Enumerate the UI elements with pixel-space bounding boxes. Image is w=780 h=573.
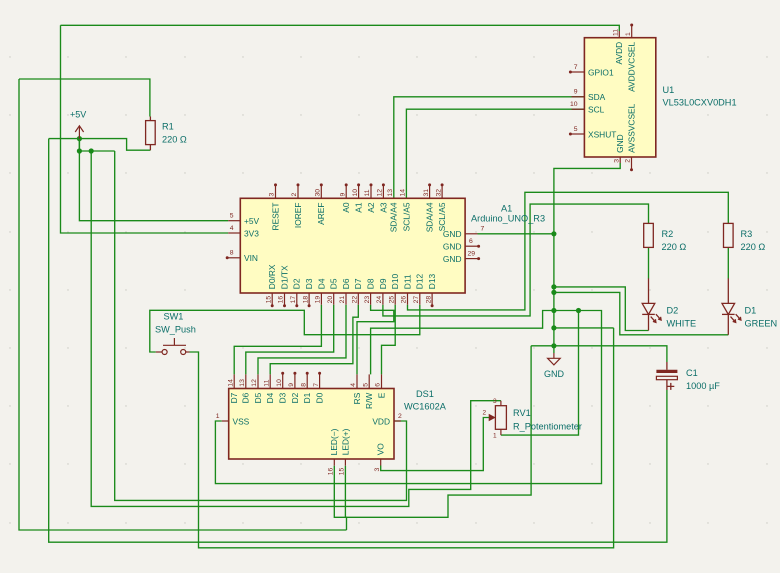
wire far-left vertical to LCD LED- rail [19,79,347,530]
capacitor C1 [656,362,677,390]
wire LCD VO to RV1 wiper [381,418,489,471]
svg-text:29: 29 [468,250,476,257]
svg-text:D9: D9 [378,278,388,289]
svg-text:D2: D2 [290,392,300,403]
svg-text:WHITE: WHITE [667,319,697,329]
svg-text:D4: D4 [265,392,275,403]
wire SCL wire [406,109,584,198]
svg-text:E: E [376,392,386,398]
svg-text:SW_Push: SW_Push [155,325,196,335]
svg-text:7: 7 [574,64,578,71]
wire +5V branch to RV1 pin3 [91,151,501,506]
power GND symbol [548,353,561,365]
DS1 left pin VSS [222,420,229,422]
svg-text:D7: D7 [229,392,239,403]
svg-text:31: 31 [423,189,430,197]
wire LCD RW to ground [371,311,554,375]
wire SW1 left to Arduino D12 [150,305,420,352]
svg-text:DS1: DS1 [416,389,434,399]
svg-text:D2: D2 [292,278,302,289]
svg-text:R1: R1 [162,122,174,132]
svg-text:R_Potentiometer: R_Potentiometer [513,422,582,432]
svg-text:R2: R2 [662,229,674,239]
wire R3 bottom to D1 anode [727,247,729,278]
wire top +5V rail to U1 AVDD [61,25,620,31]
svg-text:D6: D6 [341,278,351,289]
A1 top pins [275,186,277,198]
svg-text:RESET: RESET [270,203,280,231]
A1 bottom pins [271,293,273,305]
svg-text:D0: D0 [315,392,325,403]
wire SDA wire [394,97,585,199]
A1 right pins GND 7 6 29 [465,233,477,235]
svg-text:1: 1 [625,32,632,36]
svg-text:D1: D1 [302,392,312,403]
svg-text:GND: GND [443,241,462,251]
wire Arduino D5 to LCD D6 [246,305,334,375]
svg-text:D8: D8 [366,278,376,289]
power +5V symbol [75,126,83,139]
wire RV1 pin1 to ground row [501,311,579,436]
svg-text:R3: R3 [741,229,753,239]
A1 left pins +5V 3V3 VIN [228,220,240,222]
svg-text:GREEN: GREEN [745,319,778,329]
svg-text:AVSSVCSEL: AVSSVCSEL [627,103,637,153]
svg-text:11: 11 [613,29,620,36]
svg-text:SDA/A4: SDA/A4 [425,202,435,232]
svg-text:SCL/A5: SCL/A5 [401,202,411,231]
svg-text:VIN: VIN [244,253,258,263]
svg-text:VDD: VDD [372,416,390,426]
wire Arduino D4 to LCD D7 [234,305,321,375]
ic A1 Arduino_UNO_R3 body [240,198,465,293]
svg-text:1: 1 [493,433,497,440]
svg-text:220 Ω: 220 Ω [662,242,687,252]
svg-text:RS: RS [352,392,362,404]
svg-text:SCL: SCL [588,105,605,115]
LED D1 [722,278,741,334]
svg-text:12: 12 [251,379,258,387]
svg-text:R/W: R/W [364,393,374,409]
svg-text:U1: U1 [663,85,675,95]
LED D2 [642,278,661,330]
wire C1 top plate to ground [531,346,667,362]
switch SW1 [156,338,190,355]
svg-text:17: 17 [290,296,297,304]
wire +5V branch to LCD VDD [115,151,407,500]
U1 bottom pins GND AVSSVCSEL [619,157,621,163]
svg-text:24: 24 [376,296,383,304]
wire Arduino D7 to LCD D4 [270,305,358,375]
junction at 79,139 [77,136,82,141]
wire R2 bottom to D2 anode [648,247,650,278]
svg-text:8: 8 [230,250,234,257]
svg-text:SCL/A5: SCL/A5 [437,202,447,231]
ic U1 VL53L0CXV0DH1 body [584,38,655,157]
svg-text:16: 16 [278,296,285,304]
svg-text:VSS: VSS [233,416,250,426]
wire ground to LED D2 cathode outer [554,287,649,331]
svg-text:D5: D5 [253,392,263,403]
wire +5V vertical to C1 bottom rail [49,139,667,543]
svg-text:2: 2 [483,410,487,417]
svg-text:16: 16 [328,467,335,475]
svg-text:6: 6 [469,238,473,245]
svg-text:220 Ω: 220 Ω [741,242,766,252]
svg-text:D3: D3 [278,392,288,403]
svg-text:14: 14 [227,379,234,387]
svg-text:3: 3 [613,159,620,163]
svg-text:5: 5 [230,213,234,220]
svg-text:A3: A3 [378,202,388,213]
junction at 554,287 [551,284,556,289]
resistor R3 [724,223,734,247]
svg-text:220 Ω: 220 Ω [162,135,187,145]
svg-text:18: 18 [302,296,309,304]
wire LCD LED- drop with jog [334,466,346,530]
svg-text:SDA: SDA [588,92,606,102]
svg-text:32: 32 [435,189,442,197]
svg-text:D5: D5 [329,278,339,289]
svg-text:15: 15 [339,467,346,475]
svg-text:C1: C1 [686,368,698,378]
svg-text:IOREF: IOREF [293,203,303,229]
svg-text:8: 8 [300,383,307,387]
svg-text:10: 10 [570,101,578,108]
svg-text:VO: VO [376,443,386,456]
junction at 554,234 [551,231,556,236]
svg-text:AVDDVCSEL: AVDDVCSEL [627,41,637,91]
svg-text:11: 11 [364,189,371,196]
svg-text:AVDD: AVDD [614,42,624,65]
svg-text:26: 26 [401,296,408,304]
svg-text:23: 23 [364,296,371,304]
svg-text:9: 9 [574,89,578,96]
wire Arduino D11 to R3 [408,192,729,310]
wire +5V lower rail [79,150,114,152]
wire +5V symbol stem [78,139,80,151]
svg-text:GND: GND [544,369,565,379]
svg-text:3: 3 [269,193,276,197]
svg-text:4: 4 [230,225,234,232]
svg-text:13: 13 [239,379,246,387]
svg-text:D3: D3 [304,278,314,289]
svg-text:A1: A1 [501,204,512,214]
wire LCD LED+ to C1 row [345,346,531,518]
svg-text:28: 28 [425,296,432,304]
junction at 578,310 [576,308,581,313]
svg-text:Arduino_UNO_R3: Arduino_UNO_R3 [471,214,545,224]
svg-text:5: 5 [362,383,369,387]
svg-text:2: 2 [291,193,298,197]
svg-text:4: 4 [350,383,357,387]
svg-text:2: 2 [398,413,402,420]
svg-text:11: 11 [263,379,270,386]
DS1 top pins [233,374,235,388]
svg-text:13: 13 [387,189,394,197]
wire U1 GND pin to ground column [554,163,620,353]
DS1 bottom pins LED- LED+ VO [333,459,335,466]
wire SW1 right leg to ground row [190,328,614,548]
wire Arduino D6 to LCD D5 [258,305,346,375]
svg-text:D12: D12 [415,273,425,289]
svg-text:RV1: RV1 [513,408,531,418]
svg-text:3V3: 3V3 [244,228,259,238]
svg-text:27: 27 [413,296,420,304]
junction at 91,151 [89,148,94,153]
svg-text:+5V: +5V [70,110,86,120]
svg-text:1000 µF: 1000 µF [686,381,720,391]
svg-text:19: 19 [315,296,322,304]
junction at 554,310 [551,308,556,313]
svg-text:D1/TX: D1/TX [279,265,289,289]
svg-text:D1: D1 [745,306,757,316]
svg-text:GPIO1: GPIO1 [588,67,614,77]
svg-text:VL53L0CXV0DH1: VL53L0CXV0DH1 [663,98,737,108]
wire left vertical to Arduino 3V3 [61,25,229,233]
svg-text:5: 5 [574,126,578,133]
svg-text:25: 25 [388,296,395,304]
junction at 79,151 [77,148,82,153]
wire R1 top feed [19,79,150,117]
svg-text:D6: D6 [241,392,251,403]
svg-text:D7: D7 [353,278,363,289]
svg-text:9: 9 [288,383,295,387]
wire ground row to switch column [554,327,614,329]
wire Arduino GND pin7 row [478,233,554,235]
wire +5V to Arduino 5V pin [79,139,228,221]
svg-text:D10: D10 [390,273,400,289]
svg-text:GND: GND [443,254,462,264]
svg-text:LED(+): LED(+) [340,428,350,455]
svg-text:10: 10 [352,189,359,197]
svg-text:SW1: SW1 [164,312,184,322]
grid dots [9,56,767,523]
U1 left pins GPIO1 SDA SCL XSHUT [572,71,585,73]
junction at 554,328 [551,325,556,330]
svg-text:A0: A0 [341,202,351,213]
svg-text:D0/RX: D0/RX [267,264,277,289]
svg-text:D4: D4 [316,278,326,289]
svg-text:14: 14 [400,189,407,197]
junction at 554,292 [551,290,556,295]
svg-text:21: 21 [339,296,346,304]
svg-text:3: 3 [374,467,381,471]
svg-text:1: 1 [216,413,220,420]
wire Arduino D8 to LCD RS [357,305,394,375]
svg-text:+5V: +5V [244,216,260,226]
svg-text:10: 10 [276,379,283,387]
wire Arduino D9 to R2 [383,204,649,316]
resistor R1 [146,117,156,151]
svg-text:7: 7 [313,383,320,387]
junction at 554,346 [551,343,556,348]
DS1 right pin VDD [394,420,401,422]
svg-text:D2: D2 [667,306,679,316]
svg-text:SDA/A4: SDA/A4 [389,202,399,232]
svg-text:7: 7 [481,226,485,233]
svg-text:XSHUT: XSHUT [588,129,616,139]
svg-text:3: 3 [493,398,497,405]
svg-text:AREF: AREF [316,203,326,225]
svg-text:WC1602A: WC1602A [404,402,447,412]
svg-text:6: 6 [375,383,382,387]
svg-text:A1: A1 [354,202,364,213]
ic DS1 WC1602A body [229,389,394,460]
svg-text:15: 15 [265,296,272,304]
resistor R2 [644,223,654,247]
wire ground to LED D1 cathode inner [554,292,728,334]
svg-text:30: 30 [315,189,322,197]
svg-text:LED(−): LED(−) [329,428,339,455]
svg-text:GND: GND [615,134,625,153]
wire +5V jog to R1 bottom [49,139,151,151]
svg-text:D13: D13 [427,273,437,289]
svg-text:12: 12 [377,189,384,197]
wire Arduino D10 to LCD E [382,305,396,375]
svg-text:D11: D11 [402,274,412,289]
svg-text:9: 9 [339,193,346,197]
svg-text:A2: A2 [366,202,376,213]
svg-text:22: 22 [352,296,359,304]
svg-text:20: 20 [327,296,334,304]
wire ground row to LCD VSS [215,311,601,484]
svg-text:2: 2 [625,159,632,163]
U1 top pins AVDD AVDDVCSEL [618,31,620,38]
potentiometer RV1 [489,401,506,435]
